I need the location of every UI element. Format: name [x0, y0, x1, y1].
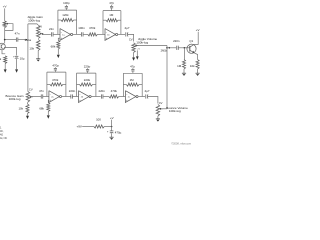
svg-text:+V: +V [3, 5, 7, 9]
svg-text:47n: 47n [15, 32, 20, 36]
feedback box stage2 right rail [120, 11, 122, 35]
potentiometer VR2 Jiggle Volume element [132, 43, 136, 53]
wiper VR2 [136, 45, 139, 47]
feedback box bounce1 left rail [46, 72, 48, 96]
wire 470k to op-amp2 [97, 33, 105, 35]
wire wiper to 22n [43, 33, 51, 35]
svg-text:220k: 220k [84, 78, 91, 82]
wire trimpot wiper rheostat link [5, 24, 13, 31]
feedback box bounce1 top wire [47, 71, 66, 73]
svg-text:470k: 470k [89, 26, 96, 30]
svg-text:100k-log: 100k-log [169, 109, 181, 113]
wire bounce wiper to 47n [30, 96, 32, 98]
svg-text:220n: 220n [173, 39, 180, 43]
svg-text:470k: 470k [111, 89, 118, 93]
svg-text:1M: 1M [109, 13, 114, 17]
wire 100n to 470k [83, 33, 88, 35]
wire cap to ground [111, 133, 113, 137]
wire resistor to ground [4, 64, 6, 70]
ground under jiggle gain pot [36, 58, 40, 60]
wire pot to ground [37, 51, 39, 59]
wire pot top connection [28, 24, 38, 25]
ground under C1 [15, 69, 18, 72]
node base bias junction [184, 47, 186, 49]
wire op-amp4 output [91, 96, 101, 98]
wire 220n to op-amp4 [73, 96, 79, 98]
wire resistor to +V node [104, 126, 111, 128]
feedback box bounce1 right rail [65, 72, 67, 96]
ground arrow under R12 [47, 115, 50, 118]
svg-text:100k-log: 100k-log [136, 40, 148, 44]
svg-text:22n: 22n [49, 27, 54, 31]
svg-text:Q1: Q1 [189, 39, 193, 43]
wire 4u7 to bounce volume pot [148, 97, 158, 104]
op-amp U2b [79, 91, 90, 103]
svg-text:47n: 47n [39, 89, 44, 93]
wire signal rail vertical (to Bounce section) [27, 24, 29, 92]
wiper VR4 [160, 108, 163, 110]
svg-text:470p: 470p [52, 64, 59, 68]
svg-text:100: 100 [96, 117, 101, 121]
wire mix bus vertical [166, 46, 168, 109]
svg-text:470k: 470k [52, 78, 59, 82]
feedback box bounce3 left rail [122, 73, 124, 96]
wire bounce volume wiper to mix bus [161, 108, 168, 110]
ground under R2 [4, 69, 7, 72]
wire emitter node down [2, 50, 5, 54]
svg-text:+V: +V [196, 28, 200, 32]
svg-text:100k-log: 100k-log [28, 18, 40, 22]
wire bias junction down [183, 48, 185, 60]
svg-text:47p: 47p [130, 64, 135, 68]
svg-text:68k: 68k [51, 44, 56, 48]
potentiometer VR4 Bounce Volume element [156, 105, 160, 117]
node mix junction [166, 47, 168, 49]
svg-text:220n: 220n [69, 89, 76, 93]
potentiometer VR3 Bounce Gain element [26, 92, 30, 103]
svg-text:2c: 2c [128, 96, 130, 98]
svg-text:100n: 100n [78, 26, 85, 30]
wire rail trimpot to transistor [4, 28, 6, 44]
svg-text:10k: 10k [18, 107, 23, 111]
svg-text:220n: 220n [98, 89, 105, 93]
svg-text:100p: 100p [63, 1, 70, 5]
feedback box stage1 right rail [76, 10, 78, 34]
svg-text:10k: 10k [190, 64, 195, 68]
node +V junction [111, 126, 113, 128]
wiper VR3 [30, 96, 33, 98]
svg-text:47p: 47p [109, 1, 114, 5]
ground under R8 [182, 72, 186, 74]
wire 4u7 to jiggle volume pot [128, 34, 134, 41]
svg-text:CV: CV [129, 38, 133, 42]
wire +V to collector [194, 32, 198, 45]
svg-text:CV: CV [159, 101, 163, 105]
svg-text:©2008, mfos.com: ©2008, mfos.com [171, 141, 192, 145]
wire op-amp2 output [118, 33, 125, 35]
svg-text:4Ω: 4Ω [0, 133, 3, 136]
ground under R9 [196, 72, 200, 74]
wire +9V to resistor [82, 126, 94, 128]
wire 220n to transistor base [179, 47, 190, 49]
wire +V rail down to trimpot [4, 8, 6, 21]
node mic-rail junction [4, 39, 6, 41]
svg-text:470µ: 470µ [115, 130, 122, 134]
svg-text:120k: 120k [62, 13, 69, 17]
svg-text:2M1b: 2M1b [161, 49, 168, 53]
wire op-amp1 output [73, 33, 81, 35]
wire jiggle volume pot to ground [133, 52, 135, 58]
wire bounce pot to resistor [27, 102, 29, 104]
feedback box bounce2 left rail [76, 73, 78, 96]
svg-text:1k, NC: 1k, NC [0, 137, 7, 140]
svg-text:CV: CV [29, 87, 33, 91]
feedback box bounce2 top wire [77, 72, 96, 74]
wire 470k to op-amp5 [119, 96, 126, 98]
wire cap to ground [16, 59, 18, 70]
svg-text:100k-log: 100k-log [9, 97, 21, 101]
svg-text:1M: 1M [177, 64, 182, 68]
node wiper VR2 [135, 45, 137, 47]
svg-text:+9V: +9V [76, 125, 81, 129]
feedback box bounce3 right rail [141, 73, 143, 96]
node wiper VR4 [160, 108, 162, 110]
svg-text:4µ7: 4µ7 [125, 26, 130, 30]
svg-text:1M: 1M [130, 78, 135, 82]
feedback box bounce2 right rail [95, 73, 97, 96]
wire collector node to cap [4, 48, 17, 56]
wire jiggle volume wiper to mix bus [136, 45, 167, 47]
transistor Q1 mic amp circle [0, 43, 5, 50]
wire 47n to signal rail with arrow [18, 39, 25, 41]
ground arrow under VR2 [132, 58, 135, 61]
node wiper junction [42, 33, 44, 35]
svg-text:4µ7: 4µ7 [145, 89, 150, 93]
wiper VR1 [41, 33, 44, 35]
feedback box stage1 top wire [58, 9, 77, 11]
op-amp U1a [60, 29, 71, 41]
wire emitter to output resistor [194, 53, 197, 60]
wire op-amp3 output [62, 96, 71, 98]
svg-text:220p: 220p [84, 65, 91, 69]
wire bounce volume pot to ground [157, 116, 159, 119]
ground under C16 [110, 136, 114, 138]
op-amp U2a [49, 91, 60, 103]
feedback box stage2 top wire [103, 10, 121, 12]
wire +V label to junction [111, 120, 113, 127]
feedback box stage2 left rail [102, 11, 104, 35]
trimpot R1 1k (input trim) [3, 21, 6, 28]
potentiometer VR1 Jiggle Gain element [36, 25, 40, 38]
wire mic node to 47n [5, 39, 16, 41]
svg-text:10µ: 10µ [20, 56, 25, 60]
svg-text:68k: 68k [39, 106, 44, 110]
feedback box stage1 left rail [57, 10, 59, 34]
wire op-amp5 output [138, 96, 145, 98]
ground under VR4 [156, 118, 160, 120]
wire 47n to op-amp3 [43, 96, 49, 98]
wire 22n to op-amp input [53, 33, 60, 35]
ground arrow under R10 [26, 116, 29, 119]
feedback box bounce3 top wire [123, 72, 142, 74]
op-amp U2c [125, 91, 135, 103]
wire 220n to 470k [103, 96, 109, 98]
ground arrow under R5 [57, 55, 60, 58]
node wiper VR3 [30, 96, 32, 98]
wire junction to cap [111, 127, 113, 131]
wire mix to 220n with arrow [167, 47, 176, 49]
op-amp U1b [105, 29, 116, 41]
svg-text:+V: +V [110, 116, 114, 120]
svg-text:10k: 10k [29, 46, 34, 50]
